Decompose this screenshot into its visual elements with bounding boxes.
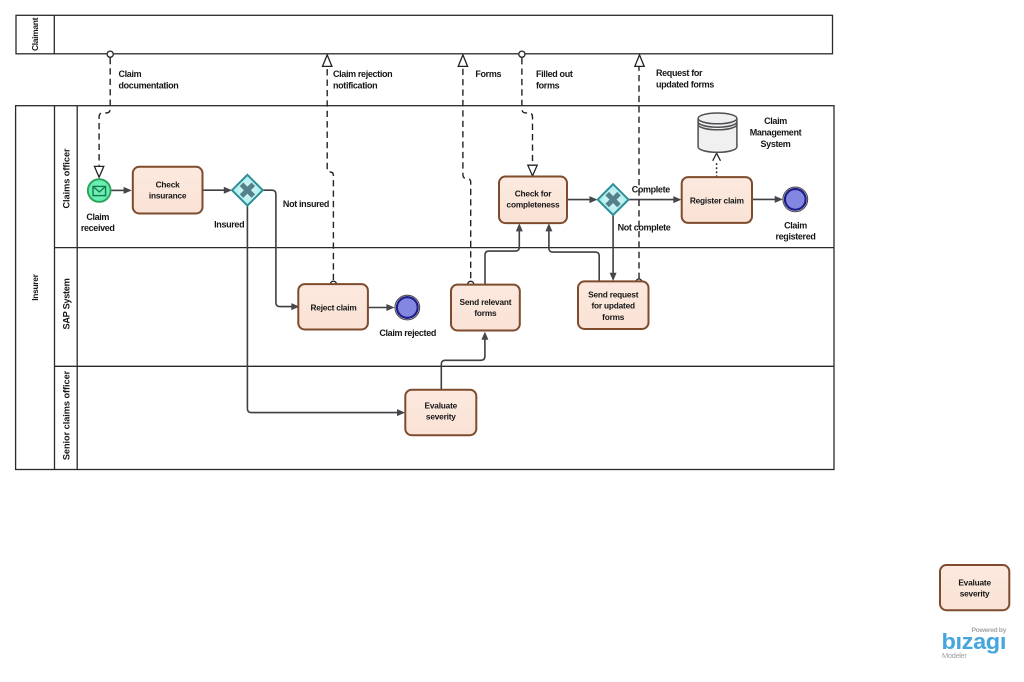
svg-text:forms: forms: [536, 81, 560, 91]
svg-text:Send request: Send request: [588, 290, 639, 300]
svg-text:Claim rejection: Claim rejection: [333, 69, 392, 79]
svg-text:Filled out: Filled out: [536, 69, 573, 79]
svg-text:Not insured: Not insured: [283, 199, 329, 209]
svg-text:Claim: Claim: [764, 116, 787, 126]
svg-text:updated forms: updated forms: [656, 80, 714, 90]
svg-text:Forms: Forms: [475, 69, 501, 79]
svg-text:Claims officer: Claims officer: [62, 148, 72, 209]
svg-text:registered: registered: [775, 232, 815, 242]
svg-text:for updated: for updated: [591, 301, 635, 311]
svg-text:Evaluate: Evaluate: [425, 401, 458, 411]
svg-text:Insurer: Insurer: [30, 273, 40, 300]
svg-text:completeness: completeness: [507, 200, 561, 210]
svg-text:Claim: Claim: [784, 221, 807, 231]
svg-text:Claim: Claim: [119, 69, 142, 79]
svg-text:Request for: Request for: [656, 68, 703, 78]
svg-text:forms: forms: [474, 308, 497, 318]
svg-text:Reject claim: Reject claim: [310, 303, 356, 313]
svg-text:Claimant: Claimant: [30, 17, 40, 51]
svg-text:severity: severity: [960, 589, 990, 599]
svg-text:Modeler: Modeler: [942, 651, 967, 660]
svg-text:Send relevant: Send relevant: [459, 297, 511, 307]
svg-text:forms: forms: [602, 312, 625, 322]
svg-text:SAP System: SAP System: [62, 278, 72, 329]
svg-text:System: System: [761, 139, 791, 149]
svg-text:Register claim: Register claim: [690, 195, 744, 205]
svg-text:received: received: [81, 223, 115, 233]
svg-text:Not complete: Not complete: [618, 223, 671, 233]
svg-text:Evaluate: Evaluate: [958, 578, 991, 588]
svg-text:Check for: Check for: [515, 189, 552, 199]
svg-text:Check: Check: [156, 180, 180, 190]
svg-text:Claim: Claim: [86, 212, 109, 222]
svg-text:Senior claims officer: Senior claims officer: [62, 370, 72, 460]
svg-text:insurance: insurance: [149, 191, 187, 201]
svg-text:Management: Management: [750, 128, 802, 138]
svg-text:Claim rejected: Claim rejected: [379, 328, 436, 338]
svg-text:Complete: Complete: [632, 185, 671, 195]
svg-text:documentation: documentation: [119, 81, 179, 91]
svg-text:notification: notification: [333, 81, 377, 91]
svg-text:severity: severity: [426, 412, 456, 422]
svg-text:Insured: Insured: [214, 219, 244, 229]
